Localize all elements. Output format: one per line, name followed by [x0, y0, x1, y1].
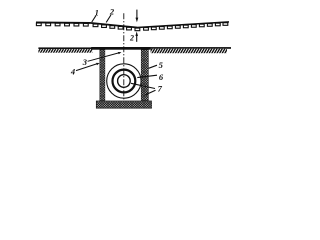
chamber floor slab (masonry)	[96, 101, 151, 108]
leader for 3 with arrowhead	[88, 52, 122, 61]
deflection arrow (up, under sag)	[135, 31, 138, 41]
load arrow (down, above sag point)	[136, 10, 139, 23]
leader for 7 (from floor corner)	[145, 90, 156, 95]
svg-text:7: 7	[158, 84, 163, 94]
svg-text:4: 4	[70, 67, 75, 77]
rail line (left level segment)	[36, 21, 90, 24]
chamber left wall (masonry)	[100, 50, 105, 101]
ground surface left (top line)	[38, 47, 93, 49]
leader for 2	[106, 15, 111, 22]
leader for 5	[149, 65, 157, 68]
ground surface right (top line)	[151, 47, 231, 49]
chamber cover slab	[91, 47, 151, 50]
rail line (right rising segment)	[137, 22, 229, 28]
svg-text:2: 2	[109, 7, 115, 17]
ground hatch band right	[151, 49, 227, 53]
leader for 6	[137, 75, 157, 77]
leader for 1	[92, 16, 96, 22]
svg-text:3: 3	[82, 57, 88, 67]
outer casing circle	[107, 64, 141, 98]
middle pipe circle (bold)	[113, 70, 136, 93]
ground hatch band left	[38, 49, 92, 53]
leader for 4 with arrowhead	[76, 63, 100, 71]
sleepers (small hollow boxes under rail)	[36, 23, 227, 31]
vertical centerline of chamber	[123, 13, 125, 108]
svg-text:2: 2	[129, 34, 134, 43]
leader for 7 (from pipe)	[131, 83, 155, 88]
svg-text:5: 5	[159, 60, 164, 70]
inner pipe bore circle	[118, 75, 131, 88]
rail line (sagging segment)	[90, 23, 137, 28]
chamber right wall (masonry)	[141, 50, 148, 101]
